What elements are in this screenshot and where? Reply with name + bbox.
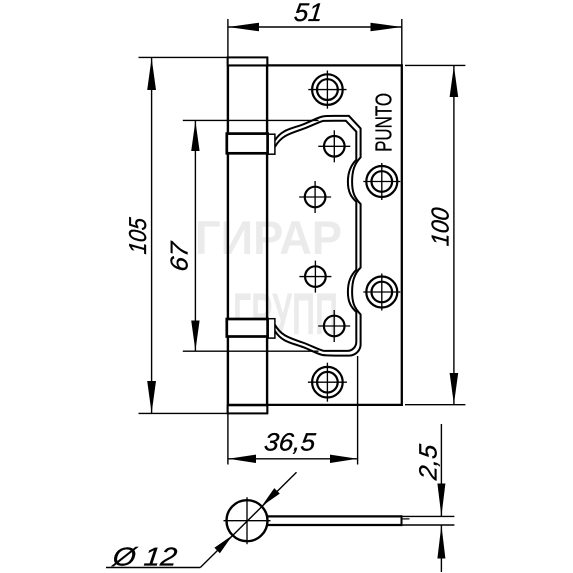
svg-text:ГИРАР: ГИРАР: [195, 211, 342, 264]
svg-text:Ø 12: Ø 12: [110, 542, 179, 572]
svg-text:67: 67: [167, 239, 194, 272]
svg-text:51: 51: [293, 0, 324, 27]
svg-text:36,5: 36,5: [263, 429, 317, 457]
svg-text:PUNTO: PUNTO: [371, 93, 397, 152]
svg-text:105: 105: [125, 216, 152, 255]
svg-text:2,5: 2,5: [414, 443, 442, 482]
svg-text:100: 100: [428, 206, 455, 247]
